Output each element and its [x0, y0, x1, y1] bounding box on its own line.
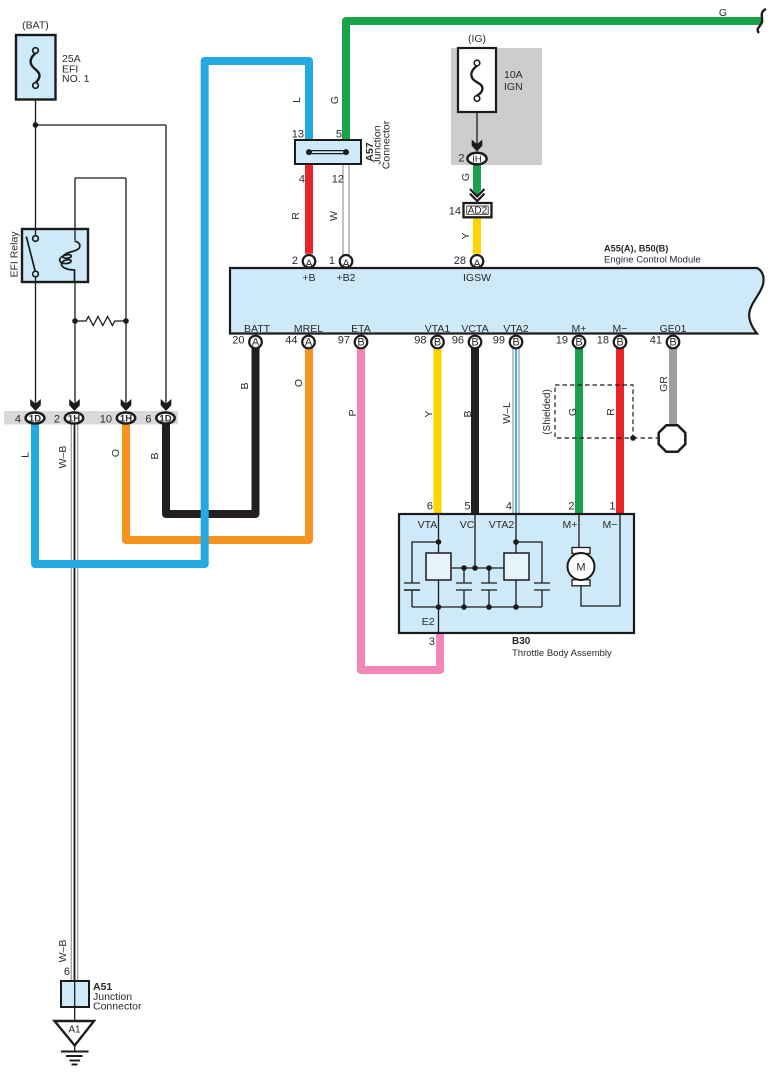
- svg-text:M: M: [576, 562, 585, 574]
- svg-text:5: 5: [336, 129, 342, 141]
- svg-text:B: B: [512, 336, 519, 348]
- svg-text:4: 4: [299, 174, 305, 186]
- svg-text:Y: Y: [460, 232, 472, 239]
- svg-text:B: B: [462, 410, 474, 417]
- svg-text:2: 2: [458, 153, 464, 165]
- svg-text:A: A: [305, 258, 313, 270]
- svg-text:L: L: [20, 452, 32, 458]
- svg-text:E2: E2: [422, 616, 435, 628]
- svg-text:BATT: BATT: [244, 323, 271, 335]
- svg-text:1H: 1H: [120, 414, 132, 425]
- svg-text:O: O: [293, 379, 305, 387]
- svg-text:Y: Y: [423, 410, 435, 417]
- svg-text:A1: A1: [68, 1025, 81, 1036]
- svg-text:G: G: [567, 408, 579, 416]
- svg-text:98: 98: [414, 335, 426, 347]
- svg-text:5: 5: [464, 501, 470, 513]
- svg-text:GR: GR: [658, 376, 670, 392]
- svg-text:(IG): (IG): [468, 33, 486, 45]
- svg-text:M−: M−: [613, 323, 628, 335]
- svg-text:10: 10: [100, 414, 112, 426]
- svg-text:3: 3: [429, 636, 435, 648]
- svg-text:B: B: [471, 336, 478, 348]
- svg-text:1H: 1H: [68, 414, 80, 425]
- svg-text:VTA: VTA: [418, 519, 438, 531]
- svg-text:VCTA: VCTA: [461, 323, 488, 335]
- svg-text:M+: M+: [563, 519, 578, 531]
- svg-text:2: 2: [292, 255, 298, 267]
- svg-text:L: L: [291, 97, 303, 103]
- svg-text:W–L: W–L: [501, 402, 513, 424]
- svg-text:GE01: GE01: [660, 323, 687, 335]
- svg-text:Engine Control Module: Engine Control Module: [604, 255, 701, 266]
- svg-text:19: 19: [556, 335, 568, 347]
- svg-text:P: P: [347, 409, 359, 416]
- svg-text:2: 2: [54, 414, 60, 426]
- svg-text:18: 18: [597, 335, 609, 347]
- svg-text:AD2: AD2: [468, 206, 488, 217]
- svg-text:A55(A), B50(B): A55(A), B50(B): [604, 244, 668, 254]
- svg-text:G: G: [460, 173, 472, 181]
- svg-text:VTA1: VTA1: [425, 323, 451, 335]
- svg-text:O: O: [110, 449, 122, 457]
- svg-text:+B2: +B2: [337, 272, 356, 284]
- svg-text:2: 2: [568, 501, 574, 513]
- svg-text:A: A: [252, 336, 260, 348]
- svg-text:A: A: [305, 336, 313, 348]
- svg-text:41: 41: [650, 335, 662, 347]
- svg-text:10A: 10A: [504, 69, 523, 81]
- svg-text:A: A: [342, 258, 350, 270]
- svg-text:B: B: [575, 336, 582, 348]
- svg-text:(Shielded): (Shielded): [542, 389, 553, 435]
- svg-text:28: 28: [454, 255, 466, 267]
- svg-text:A: A: [473, 258, 481, 270]
- svg-text:(BAT): (BAT): [22, 20, 49, 32]
- svg-text:Throttle Body Assembly: Throttle Body Assembly: [512, 648, 612, 659]
- svg-text:97: 97: [338, 335, 350, 347]
- svg-text:6: 6: [427, 501, 433, 513]
- svg-text:B: B: [616, 336, 623, 348]
- svg-text:VTA2: VTA2: [489, 519, 515, 531]
- svg-text:Connector: Connector: [93, 1001, 142, 1013]
- svg-text:44: 44: [285, 335, 297, 347]
- svg-text:B: B: [669, 336, 676, 348]
- svg-text:G: G: [719, 7, 727, 19]
- svg-text:VTA2: VTA2: [503, 323, 529, 335]
- svg-text:6: 6: [145, 414, 151, 426]
- svg-text:Connector: Connector: [381, 120, 393, 169]
- svg-text:13: 13: [292, 129, 304, 141]
- svg-text:+B: +B: [302, 272, 315, 284]
- svg-text:W–B: W–B: [57, 446, 69, 469]
- svg-text:1: 1: [609, 501, 615, 513]
- svg-text:B: B: [357, 336, 364, 348]
- svg-text:M−: M−: [603, 519, 618, 531]
- svg-text:R: R: [290, 212, 302, 220]
- svg-text:B30: B30: [512, 636, 531, 647]
- svg-text:NO. 1: NO. 1: [62, 73, 90, 85]
- svg-text:M+: M+: [572, 323, 587, 335]
- svg-text:IGN: IGN: [504, 81, 523, 93]
- svg-text:VC: VC: [460, 519, 475, 531]
- svg-text:G: G: [329, 96, 341, 104]
- svg-text:4: 4: [15, 414, 21, 426]
- svg-text:1D: 1D: [29, 414, 41, 425]
- svg-text:12: 12: [332, 174, 344, 186]
- svg-text:1: 1: [329, 255, 335, 267]
- svg-text:ETA: ETA: [351, 323, 371, 335]
- svg-text:R: R: [605, 408, 617, 416]
- svg-text:MREL: MREL: [294, 323, 323, 335]
- svg-text:W: W: [328, 211, 340, 221]
- svg-text:6: 6: [64, 966, 70, 978]
- svg-text:96: 96: [452, 335, 464, 347]
- svg-text:B: B: [149, 452, 161, 459]
- svg-text:EFI Relay: EFI Relay: [8, 231, 20, 278]
- svg-text:1D: 1D: [159, 414, 171, 425]
- svg-text:IGSW: IGSW: [463, 272, 491, 284]
- svg-text:B: B: [434, 336, 441, 348]
- svg-text:4: 4: [506, 501, 512, 513]
- svg-text:W–B: W–B: [57, 940, 69, 963]
- svg-text:99: 99: [493, 335, 505, 347]
- svg-text:B: B: [239, 382, 251, 389]
- svg-text:14: 14: [449, 206, 461, 218]
- svg-text:IH: IH: [472, 154, 482, 165]
- svg-text:20: 20: [232, 335, 244, 347]
